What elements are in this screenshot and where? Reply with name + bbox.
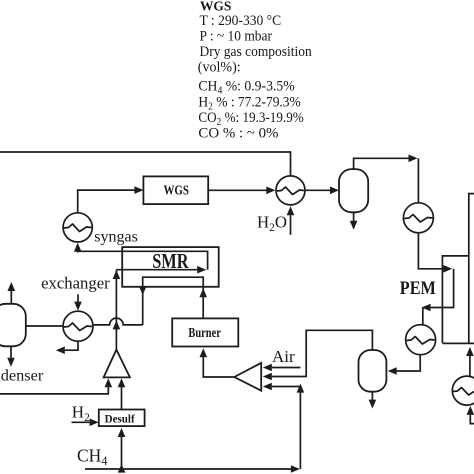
wire: H2 into Desulf xyxy=(72,421,90,423)
svg-text:exchanger: exchanger xyxy=(41,274,110,293)
reactor box Desulf xyxy=(99,410,145,427)
svg-text:WGS: WGS xyxy=(200,0,232,14)
wire: flue gas to exchanger with hop over compressor riser xyxy=(93,318,143,325)
arrow: flue gas leaving SMR down xyxy=(139,286,147,295)
svg-text:WGS: WGS xyxy=(164,182,190,197)
vessel condenser drum (cut at left edge) xyxy=(0,304,26,347)
svg-text:(vol%):: (vol%): xyxy=(198,60,241,76)
wire: cathode air from HX6 up into PEM xyxy=(469,356,471,376)
heat exchanger HX4 PEM feed cooler xyxy=(403,203,433,233)
svg-text:Burner: Burner xyxy=(188,325,221,341)
wire: mixer outlet to burner bottom xyxy=(203,357,234,377)
heat exchanger HX6 air preheater (cut at edge) xyxy=(452,376,474,405)
wire: anode off-gas down to off-gas cooler xyxy=(422,308,424,325)
wire: V1 overhead to PEM feed cooler xyxy=(354,158,409,169)
wire: CH4 riser into Desulf bottom xyxy=(121,437,123,469)
svg-text:Dry gas composition: Dry gas composition xyxy=(200,44,312,59)
wire: quench outlet to KO drum V1 xyxy=(305,189,330,191)
heat exchanger HX5 off-gas cooler xyxy=(406,325,436,355)
arrow: flow up below hop xyxy=(113,320,121,329)
wire: CH4 main header at bottom xyxy=(85,468,291,470)
wire: desulfurised gas up to compressor xyxy=(121,387,123,410)
heat exchanger HX2 syngas cooler xyxy=(63,213,92,242)
wire: compressor riser (triangle up to SMR coil) xyxy=(115,270,117,350)
vessel KO drum V2 xyxy=(359,350,387,392)
svg-text:P : ~ 10 mbar: P : ~ 10 mbar xyxy=(200,28,273,43)
wire: H2O feed up to quench mixer xyxy=(290,215,292,235)
wire: condenser vapour vent up xyxy=(10,291,12,304)
reactor box SMR (outer shell) xyxy=(122,247,219,287)
arrow: flow up at SMR coil corner xyxy=(113,270,121,279)
reactor box WGS xyxy=(143,176,208,204)
heat exchanger HX1 quench/H2O mixer xyxy=(276,176,305,205)
wire: syngas cooler to WGS inlet xyxy=(78,190,135,213)
svg-text:CO % : ~ 0%: CO % : ~ 0% xyxy=(198,126,278,142)
vessel KO drum V1 xyxy=(339,169,368,212)
svg-text:Air: Air xyxy=(272,347,295,366)
wire: V2 bottoms drain xyxy=(371,392,373,400)
wire: CH4 branch into mixer xyxy=(272,386,301,388)
svg-text:PEM: PEM xyxy=(400,277,436,299)
wire: condensate return from left edge to compressor xyxy=(0,387,108,394)
wire: cooled off-gas into KO drum V2 xyxy=(397,355,421,371)
wire: cooled H2 into PEM anode xyxy=(418,233,443,269)
compressor triangle C1 (feed to SMR) xyxy=(104,350,130,378)
arrow: label pointer down to exchanger xyxy=(77,294,79,302)
wire: condenser liquid drain down xyxy=(10,346,12,358)
svg-text:T : 290-330 °C: T : 290-330 °C xyxy=(200,14,282,29)
arrow: burner exhaust entering SMR xyxy=(199,288,207,297)
burner box xyxy=(172,318,238,346)
mixer triangle (air + fuel to burner) xyxy=(234,363,261,391)
wire: flue gas pass inside SMR firebox xyxy=(143,277,204,325)
wire: SMR coil outlet to syngas cooler xyxy=(78,251,208,269)
wire: WGS outlet to quench mixer xyxy=(208,189,266,191)
wire: exchanger coolant out left xyxy=(65,341,78,350)
wire: V1 bottoms drain xyxy=(353,212,355,221)
PEM stack box lines (cut at right edge) xyxy=(469,194,474,344)
heat exchanger HX3 flue cooler xyxy=(63,311,93,341)
wire: exchanger to condenser xyxy=(26,325,64,327)
wire: PEM off-gas return into mixer xyxy=(272,330,373,376)
svg-text:Desulf: Desulf xyxy=(105,413,135,425)
wire: compressed feed into SMR coil xyxy=(116,269,197,271)
wire: air feed from right edge into HX6 xyxy=(470,415,474,424)
wire: CH4 riser to burner mixer xyxy=(299,391,301,470)
svg-text:ondenser: ondenser xyxy=(0,366,44,385)
svg-text:syngas: syngas xyxy=(94,228,138,245)
wire: PEM anode internal pass and outlet xyxy=(431,269,454,308)
wire: air feed into mixer xyxy=(272,367,301,369)
node text block: WGS operating conditions xyxy=(198,0,312,142)
wire: recycle header from left edge into quench mixer xyxy=(0,152,291,176)
